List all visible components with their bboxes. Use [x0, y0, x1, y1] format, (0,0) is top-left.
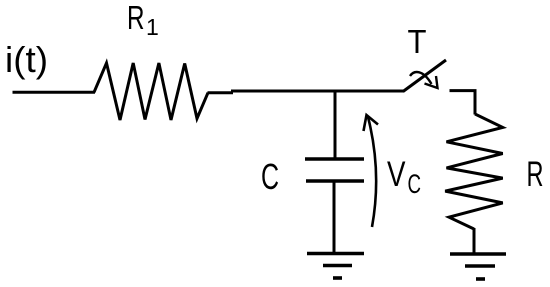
svg-text:T: T — [408, 23, 427, 60]
resistor R — [445, 114, 503, 229]
wire — [13, 91, 96, 94]
resistor R1 — [94, 63, 208, 120]
wire — [450, 91, 476, 115]
label R1 — [127, 0, 159, 40]
svg-text:V: V — [387, 155, 406, 194]
wire — [473, 228, 476, 254]
svg-text:C: C — [261, 156, 279, 197]
voltage arrow VC — [364, 115, 379, 227]
label VC — [387, 155, 421, 199]
wire — [208, 91, 405, 93]
svg-text:R: R — [527, 155, 544, 194]
wire — [333, 181, 336, 253]
svg-text:R: R — [127, 0, 145, 36]
svg-text:C: C — [408, 169, 422, 199]
switch closing arrow — [410, 72, 438, 88]
ground — [307, 254, 364, 279]
svg-text:i(t): i(t) — [5, 39, 48, 80]
capacitor C — [305, 159, 364, 181]
switch T — [403, 60, 446, 92]
svg-text:1: 1 — [146, 14, 159, 40]
wire — [334, 90, 337, 160]
ground — [450, 254, 506, 279]
